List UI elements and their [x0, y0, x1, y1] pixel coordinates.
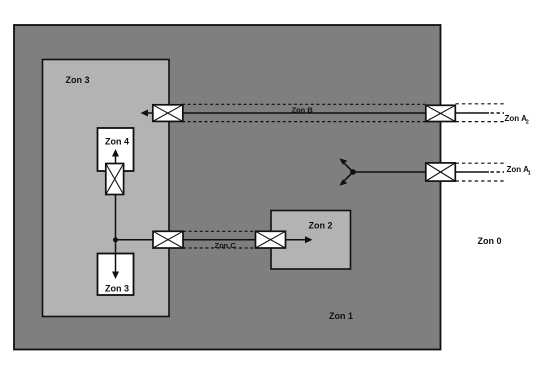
splitter junction dot: [350, 169, 356, 175]
duct Zon B solid center line: [182, 112, 426, 114]
valve V1 (vertical, under Zon 4): [106, 164, 124, 195]
duct A1 right extension: middle solid then dashed: [456, 171, 490, 173]
splitter arrow down-left: [345, 172, 354, 181]
svg-text:Zon 3: Zon 3: [105, 284, 129, 294]
splitter arrow up-left: [345, 164, 354, 173]
duct A1 right extension: bottom dashed: [456, 180, 506, 182]
svg-text:2: 2: [526, 120, 529, 126]
svg-text:Zon 3: Zon 3: [66, 75, 90, 85]
duct Zon C dashed top line: [183, 230, 255, 232]
room box Zon 4: [98, 128, 134, 171]
valve V2 (Zon C left): [153, 231, 183, 248]
svg-text:Zon 0: Zon 0: [478, 236, 502, 246]
arrow down into box Zon 3: [115, 240, 117, 272]
svg-text:Zon A: Zon A: [507, 165, 530, 174]
duct Zon B dashed bottom line: [182, 121, 426, 123]
svg-text:Zon 4: Zon 4: [105, 137, 129, 147]
arrow out of valve V3 into Zon 2 (points right): [285, 239, 306, 241]
duct A2 right extension: bottom dashed: [456, 121, 506, 123]
wire from splitter to valve V6: [353, 171, 426, 173]
valve V5 (right top, on Zon 1 edge): [426, 105, 456, 121]
valve V6 (right bottom, on Zon 1 edge): [426, 163, 456, 181]
junction dot: [113, 237, 118, 242]
duct A1 right extension: top dashed: [456, 162, 506, 164]
duct Zon C dashed bottom line: [183, 247, 255, 249]
svg-text:1: 1: [528, 171, 531, 177]
arrow up into box Zon 4: [115, 156, 117, 164]
svg-text:Zon C: Zon C: [215, 241, 237, 250]
wire junction to valve V2: [116, 239, 154, 241]
room box Zon 3 (bottom): [98, 254, 134, 296]
svg-text:Zon 1: Zon 1: [329, 311, 353, 321]
duct Zon B dashed top line: [182, 103, 426, 105]
svg-text:Zon A: Zon A: [505, 114, 528, 123]
svg-text:Zon 2: Zon 2: [309, 221, 333, 231]
duct A2 right extension: top dashed: [456, 103, 506, 105]
duct A2 right extension: middle solid then dashed: [456, 112, 490, 114]
wire valve V1 bottom to junction: [115, 194, 117, 240]
duct Zon C solid center line: [183, 239, 255, 241]
zone Zon 2 (light rectangle): [271, 211, 351, 270]
svg-text:Zon B: Zon B: [292, 105, 314, 114]
zone Zon 1 (outer dark rectangle): [14, 25, 441, 350]
valve V3 (Zon C right, on Zon 2 edge): [256, 231, 286, 248]
zone Zon 3 (inner light rectangle): [43, 60, 170, 317]
valve V4 (Zon B left): [153, 105, 183, 122]
arrow out of valve V4 (points left): [148, 112, 153, 114]
